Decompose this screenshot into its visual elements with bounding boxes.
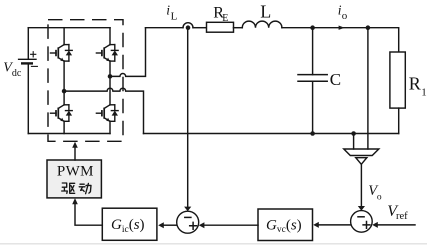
wire Gvc to S1 <box>204 224 258 226</box>
wire io node down to sensor <box>367 28 369 149</box>
inductor L <box>242 21 282 28</box>
transistor Q1 <box>51 45 73 62</box>
wire right leg mid <box>109 61 111 105</box>
wire output A with hop over dashed edge <box>110 28 146 77</box>
svg-text:ref: ref <box>396 211 408 222</box>
wire bottom dc bus <box>28 133 110 135</box>
node io tap <box>366 25 371 30</box>
wire left leg upper <box>63 28 65 45</box>
node sensor tap <box>351 131 356 136</box>
arrow PWM into bridge <box>72 142 78 148</box>
wire sensor tap down <box>353 134 355 150</box>
node capacitor bottom <box>310 131 315 136</box>
transistor Q3 <box>51 105 73 122</box>
node left leg midpoint <box>62 89 67 94</box>
battery V_dc long plate <box>19 58 36 60</box>
arrow Vo into summer <box>358 206 365 211</box>
svg-text:dc: dc <box>12 68 22 79</box>
wire R_E to L <box>234 27 243 29</box>
resistor R1 <box>390 52 405 108</box>
node capacitor top <box>310 25 315 30</box>
arrow Vref into summer <box>372 222 378 228</box>
wire S1 to Gic <box>163 224 177 226</box>
node right leg midpoint <box>108 74 113 79</box>
svg-text:L: L <box>171 10 178 22</box>
block Gic <box>102 208 157 240</box>
wire left rail bottom <box>27 63 29 133</box>
wire PWM to bridge <box>74 147 76 161</box>
battery plus sign <box>31 52 36 57</box>
glyph 驱 right part <box>70 183 75 193</box>
S2 plus sign <box>363 222 370 229</box>
wire top dc bus <box>28 27 110 29</box>
glyph 动 cloud part <box>79 184 85 191</box>
wire R1 bottom <box>398 108 400 133</box>
page separator line <box>0 243 427 245</box>
svg-text:PWM: PWM <box>57 163 94 179</box>
wire right leg upper <box>109 28 111 45</box>
arrow into PWM bottom <box>72 198 78 204</box>
svg-text:L: L <box>260 1 271 21</box>
wire left leg mid <box>63 61 65 105</box>
arrow io direction <box>339 26 345 30</box>
battery V_dc short plate <box>22 62 32 64</box>
capacitor C plates <box>298 75 327 82</box>
wire top rail to iL sensor <box>146 27 184 29</box>
dashed box bridge module <box>48 20 123 142</box>
svg-text:E: E <box>222 13 228 24</box>
node iL tap <box>186 25 191 30</box>
wire right leg lower <box>109 121 111 133</box>
svg-text:R: R <box>409 74 421 94</box>
svg-text:Gic(s): Gic(s) <box>111 217 145 235</box>
wire rail iL loop to R_E <box>193 27 207 29</box>
voltage sensor trapezoid <box>344 149 379 156</box>
glyph 动 force part <box>86 183 91 193</box>
svg-text:o: o <box>342 10 348 22</box>
S2 minus sign <box>358 216 364 218</box>
capacitor C top lead <box>312 28 314 75</box>
wire Vo down <box>360 164 362 206</box>
block PWM driver <box>47 160 101 198</box>
wire output B with hops over leg and dashed edge <box>64 88 143 133</box>
transistor Q4 <box>96 105 118 122</box>
wire left rail top <box>27 28 29 60</box>
glyph 驱 horse radical <box>62 183 68 193</box>
arrow iL into summer <box>184 207 191 212</box>
battery minus sign <box>31 65 37 67</box>
arrow into S1 <box>199 222 205 228</box>
wire Vref input <box>378 224 416 226</box>
S1 minus sign <box>185 216 191 218</box>
svg-text:1: 1 <box>421 86 427 98</box>
wire S2 to Gvc <box>319 224 351 226</box>
wire bottom output rail <box>144 133 399 135</box>
transistor Q2 <box>96 45 118 62</box>
block Gvc <box>258 209 313 241</box>
summing junction S1 (current) <box>177 211 199 233</box>
iL sensor loop <box>183 23 193 28</box>
arrow into Gvc <box>313 222 319 228</box>
wire left leg lower <box>63 121 65 133</box>
svg-text:o: o <box>377 192 382 202</box>
svg-text:C: C <box>330 70 341 89</box>
arrow into Gic <box>158 222 164 228</box>
voltage sensor triangle <box>356 158 367 165</box>
summing junction S2 (voltage) <box>351 211 373 233</box>
wire L to R1 corner <box>282 28 399 52</box>
resistor R_E <box>207 22 234 32</box>
wire Gic to PWM <box>75 203 102 226</box>
label 驱动 drawn strokes <box>62 183 91 194</box>
capacitor C bottom lead <box>312 81 314 133</box>
wire iL sense down <box>187 28 189 207</box>
S1 plus sign <box>190 222 197 229</box>
